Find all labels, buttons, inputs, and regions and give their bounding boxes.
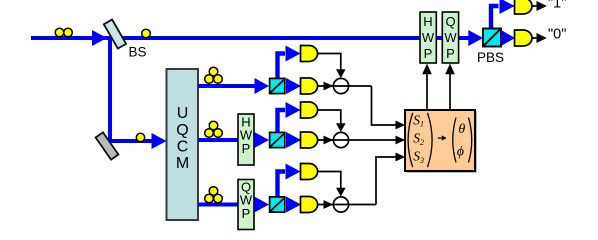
wire: arrowhead to label "1"	[537, 1, 547, 11]
half-wave plate HWP (analysis)	[420, 12, 436, 63]
wire: arrowhead up into QWP	[445, 64, 455, 75]
wire: row2 beam arrowhead after PBS2	[286, 132, 301, 148]
wire: row1 beam arrowhead after PBS1	[286, 78, 301, 94]
subtractor circle S2row	[333, 132, 348, 147]
node: row2 photon triplet	[205, 121, 223, 137]
wire: feedback line to QWP	[449, 74, 451, 110]
wire: row2 upper beam arrowhead	[286, 102, 301, 118]
wire: row1 PBS up-elbow beam	[278, 54, 286, 81]
wire: row1 beam UQCM to PBS1	[198, 84, 255, 88]
polarizing beam splitter PBS1	[270, 78, 285, 93]
wire: row2 PBS up-elbow beam	[278, 110, 286, 134]
wire: arrowhead into S1	[396, 121, 406, 130]
node: photon before UQCM	[136, 133, 144, 141]
wire: D2a output to subtractor top	[317, 110, 341, 124]
beam splitter BS (tilted slab)	[104, 20, 126, 49]
polarizing beam splitter PBS3	[270, 197, 285, 212]
wire: arrowhead down into subtractor 1	[336, 69, 346, 78]
subtractor circle S1row	[333, 78, 348, 93]
wire: beam arrowhead after PBS4	[501, 30, 515, 46]
svg-text:Q: Q	[176, 122, 188, 139]
svg-text:U: U	[177, 105, 189, 122]
svg-text:P: P	[424, 46, 433, 61]
svg-text:BS: BS	[129, 45, 147, 60]
svg-text:Q: Q	[445, 14, 455, 29]
wire: beam arrowhead into BS	[92, 30, 107, 46]
svg-text:C: C	[177, 139, 189, 156]
polarizing beam splitter PBS4	[483, 29, 501, 47]
quarter-wave plate QWP (analysis)	[442, 12, 458, 63]
wire: PBS4 up-elbow beam to detector "1"	[491, 6, 499, 30]
detector D3b (row3 lower)	[301, 197, 318, 213]
quarter-wave plate QWP (row3)	[238, 179, 254, 229]
svg-text:W: W	[422, 30, 435, 45]
wire: row3 beam UQCM to QWP	[198, 203, 238, 207]
detector D1a (row1 upper)	[301, 46, 318, 62]
svg-text:P: P	[446, 46, 455, 61]
wire: row1 beam arrowhead into PBS1	[255, 78, 270, 94]
wire: D3b output through subtractor 3	[317, 204, 376, 206]
wire: upper beam arrowhead into detector "1"	[500, 0, 515, 14]
wire: arrowhead down into subtractor 2	[336, 123, 346, 132]
half-wave plate HWP (row2)	[238, 114, 254, 165]
detector "1" (upper output)	[515, 0, 533, 14]
wire: subtractor 3 output to S3 input	[376, 157, 397, 205]
detector "0" (lower output)	[515, 30, 533, 46]
wire: row3 upper beam arrowhead	[286, 164, 301, 180]
wire: row3 PBS up-elbow beam	[278, 172, 286, 199]
subtractor circle S3row	[333, 197, 348, 212]
svg-text:P: P	[242, 141, 251, 156]
detector D2b (row2 lower)	[301, 132, 318, 148]
wire: row2 beam arrowhead into PBS2	[254, 132, 269, 148]
wire: beam arrowhead into UQCM	[152, 133, 167, 149]
svg-text:PBS: PBS	[477, 50, 504, 65]
Stokes analysis box (S1 S2 S3 -> theta phi)	[405, 110, 477, 173]
detector D2a (row2 upper)	[301, 102, 318, 118]
wire: vertical beam from BS down to mirror	[108, 38, 112, 143]
node: row3 photon triplet	[205, 187, 223, 203]
wire: row1 upper beam arrowhead	[286, 46, 301, 62]
wire: row3 beam arrowhead into PBS3	[254, 197, 269, 213]
wire: D3a output to subtractor top	[317, 172, 341, 189]
wire: mini arrowhead into subtractor 3	[324, 200, 334, 209]
detector D1b (row1 lower)	[301, 78, 318, 94]
node: input photon pair (two yellow circles)	[55, 28, 72, 37]
wire: arrowhead into S2	[396, 136, 406, 145]
wire: row3 beam arrowhead after PBS3	[286, 197, 301, 213]
svg-text:W: W	[444, 30, 457, 45]
svg-text:H: H	[423, 14, 432, 29]
wire: detector "1" output	[532, 5, 537, 7]
wire: detector "0" output	[532, 37, 537, 39]
wire: D1a output to subtractor top	[317, 54, 341, 71]
detector D3a (row3 upper)	[301, 164, 318, 180]
UQCM box U1	[167, 69, 199, 220]
svg-text:M: M	[176, 155, 189, 172]
wire: mini arrowhead into subtractor 1	[324, 82, 334, 91]
node: row1 photon triplet	[205, 67, 223, 83]
svg-text:ϕ: ϕ	[457, 144, 464, 159]
mirror (tilted gray slab)	[96, 132, 119, 159]
svg-text:"1": "1"	[548, 0, 566, 12]
wire: D1b output through subtractor 1	[317, 85, 372, 87]
wire: mini arrowhead into subtractor 2	[324, 136, 334, 145]
polarizing beam splitter PBS2	[270, 132, 285, 147]
wire: arrowhead down into subtractor 3	[336, 188, 346, 197]
svg-text:θ: θ	[458, 122, 465, 137]
wire: arrowhead to label "0"	[537, 33, 547, 43]
wire: row2 beam UQCM to HWP	[198, 138, 238, 142]
wire: main input beam (horizontal, top)	[31, 36, 470, 40]
wire: horizontal beam from mirror to UQCM	[110, 139, 152, 143]
wire: arrowhead into S3	[396, 153, 406, 162]
svg-text:"0": "0"	[548, 26, 566, 42]
wire: subtractor 1 output to S1 input	[372, 86, 398, 125]
svg-text:P: P	[242, 206, 251, 221]
wire: D2b output through subtractor 2 to S2 input	[317, 139, 397, 141]
wire: feedback line to HWP	[426, 74, 428, 110]
wire: beam arrowhead into PBS4	[468, 30, 483, 46]
wire: arrowhead up into HWP	[422, 64, 432, 75]
node: photon after BS	[142, 29, 151, 38]
